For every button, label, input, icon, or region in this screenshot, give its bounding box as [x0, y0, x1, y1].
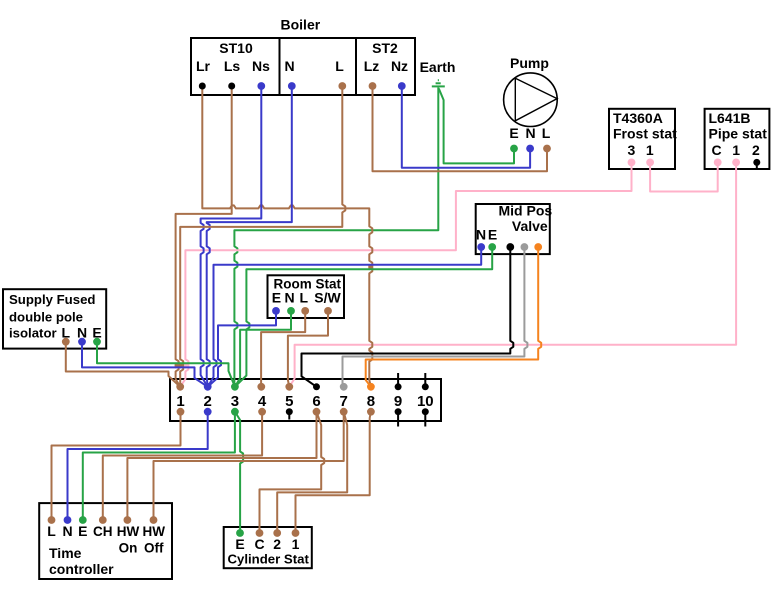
svg-text:HW: HW [143, 524, 166, 539]
boiler pin Ls [228, 83, 235, 90]
room stat pin S/W [324, 307, 332, 315]
wire mid pos valve E to terminal 3 (green) [235, 247, 492, 387]
time controller pin N [64, 516, 72, 524]
mid pos valve pin orange [534, 243, 542, 251]
pipe stat pin C [714, 159, 722, 167]
wire room stat L to terminal 4 (brown) [261, 311, 305, 387]
wire mid pos valve N to terminal 2 (blue) [208, 247, 482, 387]
svg-text:C: C [254, 536, 264, 552]
pipe stat terminal dots [714, 159, 761, 167]
wire terminal 6 to cylinder stat C (brown) [260, 412, 325, 533]
svg-text:10: 10 [417, 393, 434, 410]
svg-text:Lr: Lr [196, 58, 211, 74]
cylinder stat pin E [236, 529, 244, 537]
cylinder stat pin 1 [292, 529, 300, 537]
wire earth to terminal 3 (green) [234, 88, 438, 387]
time controller box U7 [39, 503, 172, 579]
svg-text:Valve: Valve [512, 218, 548, 234]
wire room stat N to terminal 3 (green) [235, 311, 291, 387]
wire terminal 3 to time controller E (green) [83, 412, 235, 520]
wire supply E to terminal 3 (green) [97, 342, 235, 387]
svg-text:HW: HW [117, 524, 140, 539]
pump terminal dots [510, 145, 551, 153]
boiler pin N [288, 82, 296, 90]
time controller pin E [79, 516, 87, 524]
svg-text:L: L [62, 325, 71, 341]
time controller pin HW Off [150, 516, 158, 524]
terminal strip node 6 top [313, 383, 320, 390]
svg-text:Ls: Ls [224, 58, 241, 74]
svg-text:controller: controller [49, 561, 114, 577]
terminal strip node 7 top [340, 383, 348, 391]
wire terminal 10 stubs [424, 373, 426, 427]
supply isolator pin E [93, 338, 101, 346]
svg-text:ST10: ST10 [219, 40, 253, 56]
room stat terminal dots [272, 307, 332, 315]
terminal strip bottom dots 1-10 [177, 408, 429, 416]
earth symbol [432, 80, 445, 86]
boiler terminal dots [199, 82, 406, 90]
pipe stat pin 1 [732, 159, 740, 167]
supply isolator terminal dots [62, 338, 101, 346]
terminal strip node 5 top [285, 383, 293, 391]
terminal strip node 3 bottom [231, 408, 239, 416]
svg-text:CH: CH [93, 524, 113, 539]
svg-text:E: E [509, 125, 518, 141]
mid pos valve box U4 [476, 204, 550, 254]
svg-text:Mid Pos: Mid Pos [499, 203, 553, 219]
boiler pin Nz [398, 82, 406, 90]
wire supply N to terminal 2 (blue) [82, 342, 208, 387]
svg-text:L: L [542, 125, 551, 141]
svg-text:L: L [47, 523, 56, 539]
svg-text:Ns: Ns [252, 58, 270, 74]
mid pos valve terminal dots [477, 243, 542, 251]
pump pin L [543, 145, 551, 153]
wire room stat SW to terminal 5 (brown) [288, 311, 328, 387]
terminal strip node 6 bottom [313, 408, 321, 416]
svg-text:L: L [335, 58, 344, 74]
svg-text:N: N [77, 325, 87, 341]
wire terminal 8 to cylinder stat 1 (brown) [296, 412, 371, 533]
terminal strip node 9 bottom [395, 408, 402, 415]
wire boiler N to terminal 2 (blue) [207, 86, 292, 387]
pipe stat box U3 [705, 109, 770, 169]
svg-text:Off: Off [144, 541, 164, 556]
supply isolator box U6 [3, 289, 106, 348]
supply isolator pin N [78, 338, 86, 346]
cylinder stat terminal dots [236, 529, 299, 537]
mid pos valve pin black [506, 243, 514, 251]
terminal strip node 4 bottom [258, 408, 266, 416]
wire terminal 5 bottom stub [288, 412, 290, 420]
svg-text:Nz: Nz [391, 58, 408, 74]
wire room stat E to terminal 2 (blue) [208, 311, 276, 387]
svg-text:E: E [488, 227, 497, 243]
svg-text:Lz: Lz [364, 58, 380, 74]
frost stat terminal dots [628, 159, 654, 167]
svg-text:N: N [284, 290, 294, 306]
svg-text:Cylinder Stat: Cylinder Stat [228, 552, 310, 567]
wire terminal 7 to time controller HW Off (brown) [154, 412, 344, 520]
mid pos valve pin grey [521, 243, 529, 251]
wire boiler L to terminal 1 (brown) [180, 86, 345, 387]
svg-text:Earth: Earth [420, 59, 456, 75]
svg-text:isolator: isolator [9, 326, 57, 341]
svg-text:8: 8 [367, 393, 375, 410]
pump pin N [526, 145, 534, 153]
svg-text:Pipe stat: Pipe stat [709, 126, 768, 142]
wire pipe stat 2 stub [756, 162, 758, 168]
boiler pin Ns [257, 82, 265, 90]
svg-text:E: E [92, 325, 101, 341]
svg-text:2: 2 [204, 393, 212, 410]
svg-text:S/W: S/W [314, 290, 341, 306]
wire boiler Ns to terminal 2 (blue) [201, 86, 262, 387]
svg-text:L641B: L641B [709, 110, 751, 126]
svg-text:9: 9 [394, 393, 402, 410]
room stat pin E [272, 307, 280, 315]
wire terminal 7 to cylinder stat 2 (brown) [277, 412, 347, 533]
supply isolator pin L [62, 338, 70, 346]
svg-text:2: 2 [752, 142, 760, 158]
terminal strip node 7 bottom [340, 408, 348, 416]
svg-text:N: N [284, 58, 294, 74]
boiler box [191, 38, 415, 95]
svg-text:C: C [712, 142, 722, 158]
svg-text:double pole: double pole [9, 310, 83, 325]
svg-text:Boiler: Boiler [281, 17, 321, 33]
svg-text:3: 3 [628, 142, 636, 158]
cylinder stat pin C [256, 529, 264, 537]
frost stat pin 3 [628, 159, 636, 167]
room stat pin N [287, 307, 295, 315]
svg-text:5: 5 [285, 393, 293, 410]
terminal strip box [170, 379, 441, 421]
svg-text:1: 1 [732, 142, 740, 158]
terminal strip node 2 bottom [204, 408, 212, 416]
wire earth branch to pump E (green) [439, 89, 514, 164]
wire boiler Ls to terminal 1 (brown) [176, 86, 232, 387]
frost stat pin 1 [646, 159, 654, 167]
svg-text:6: 6 [312, 393, 320, 410]
wire terminal 4 to time controller CH (brown) [103, 412, 262, 520]
wire boiler Lr to terminal 8 (brown) [202, 86, 372, 387]
svg-text:Frost stat: Frost stat [613, 126, 677, 142]
terminal strip node 4 top [257, 383, 265, 391]
time controller terminal dots [48, 516, 158, 524]
svg-text:N: N [525, 125, 535, 141]
room stat box U5 [268, 275, 345, 318]
time controller pin HW On [124, 516, 132, 524]
wire terminal 2 to time controller N (blue) [68, 412, 208, 520]
wire terminal 3 to cylinder stat E (green) [235, 412, 243, 533]
svg-text:1: 1 [292, 536, 300, 552]
svg-text:E: E [235, 536, 244, 552]
frost stat box U2 [609, 109, 675, 169]
terminal strip node 5 bottom [286, 408, 293, 415]
mid pos valve pin N [477, 243, 485, 251]
time controller pin L [48, 516, 56, 524]
wire terminal 1 to time controller L (brown) [52, 412, 181, 520]
wire terminal 9 stubs [397, 373, 399, 427]
wire pump N to boiler Nz (blue) [402, 86, 530, 168]
wire mid pos valve black to terminal 6 [302, 247, 514, 387]
terminal strip node 2 top [204, 383, 212, 391]
wire pipe stat 1 to terminal 5 (pink) [289, 162, 736, 386]
svg-text:N: N [476, 227, 486, 243]
wire supply L to terminal 1 (brown) [66, 342, 180, 387]
wire pump L to boiler Lz (brown) [373, 86, 548, 171]
terminal strip top dots 1-10 [176, 383, 428, 391]
terminal strip node 8 top [367, 383, 375, 391]
svg-text:3: 3 [231, 393, 239, 410]
svg-text:L: L [300, 290, 309, 306]
boiler pin Lz [369, 82, 377, 90]
terminal strip node 8 bottom [367, 408, 375, 416]
pump pin E [510, 145, 518, 153]
svg-text:Pump: Pump [510, 55, 549, 71]
terminal strip node 10 bottom [422, 408, 429, 415]
svg-text:On: On [119, 541, 138, 556]
svg-text:7: 7 [340, 393, 348, 410]
svg-text:1: 1 [646, 142, 654, 158]
svg-text:Supply Fused: Supply Fused [9, 292, 95, 307]
svg-text:N: N [62, 523, 72, 539]
cylinder stat pin 2 [273, 529, 281, 537]
room stat pin L [301, 307, 309, 315]
boiler pin L [338, 82, 346, 90]
svg-text:2: 2 [273, 536, 281, 552]
wire terminal 6 to time controller HW On (brown) [127, 412, 316, 520]
svg-text:E: E [78, 523, 87, 539]
boiler pin Lr [199, 83, 206, 90]
svg-text:E: E [272, 290, 281, 306]
terminal strip node 1 bottom [177, 408, 185, 416]
pipe stat pin 2 [753, 159, 760, 166]
svg-text:Time: Time [49, 545, 82, 561]
terminal strip node 3 top [231, 383, 239, 391]
pump symbol M1 [504, 73, 558, 127]
cylinder stat box U8 [224, 527, 312, 568]
wire mid pos valve orange to terminal 8 [366, 247, 542, 387]
mid pos valve pin E [488, 243, 496, 251]
time controller pin CH [99, 516, 107, 524]
wire mid pos valve grey to terminal 7 [343, 247, 528, 387]
svg-text:T4360A: T4360A [613, 110, 663, 126]
terminal strip node 10 top [422, 383, 429, 390]
svg-text:ST2: ST2 [372, 40, 398, 56]
terminal strip node 9 top [395, 383, 402, 390]
svg-text:4: 4 [258, 393, 267, 410]
wire frost stat 3 to terminal 1 (pink) [180, 162, 631, 386]
svg-text:1: 1 [176, 393, 184, 410]
wire frost stat 1 to pipe stat C (pink) [650, 162, 718, 191]
terminal strip node 1 top [176, 383, 184, 391]
